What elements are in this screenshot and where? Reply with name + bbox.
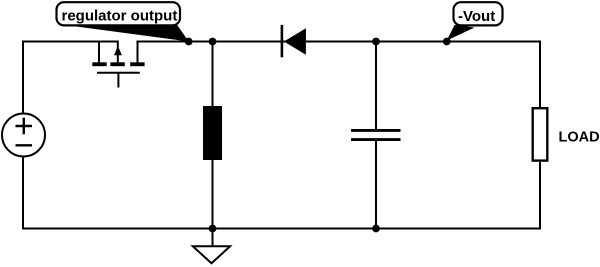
node: regulator output junction xyxy=(185,38,193,46)
wire: source positive terminal up and along top to MOSFET source xyxy=(23,42,119,113)
callout "-Vout" xyxy=(447,2,503,40)
ground xyxy=(193,246,230,263)
wire: source negative terminal down and along bottom to LOAD xyxy=(23,158,540,229)
diode D1 xyxy=(282,25,306,57)
node: inductor bottom junction xyxy=(209,225,217,233)
resistor LOAD xyxy=(533,108,548,160)
wire: inductor top lead xyxy=(212,42,214,107)
svg-text:regulator output: regulator output xyxy=(62,8,178,25)
wire: MOSFET drain to top-right corner down to LOAD xyxy=(137,42,540,108)
node: inductor top junction xyxy=(209,38,217,46)
svg-text:-Vout: -Vout xyxy=(458,8,495,25)
svg-text:LOAD: LOAD xyxy=(559,130,600,146)
wire: ground stub xyxy=(212,229,214,247)
wire: inductor bottom lead xyxy=(212,160,214,229)
transistor Q1 (MOSFET pass element) xyxy=(92,41,144,88)
node: capacitor top junction xyxy=(372,38,380,46)
node: capacitor bottom junction xyxy=(372,225,380,233)
wire: capacitor bottom lead xyxy=(375,140,377,229)
voltage source V1 xyxy=(2,114,45,157)
capacitor C1 xyxy=(351,130,401,139)
inductor L1 xyxy=(203,106,222,160)
callout "regulator output" xyxy=(57,2,189,41)
node: -Vout junction xyxy=(443,38,451,46)
wire: capacitor top lead xyxy=(375,42,377,131)
